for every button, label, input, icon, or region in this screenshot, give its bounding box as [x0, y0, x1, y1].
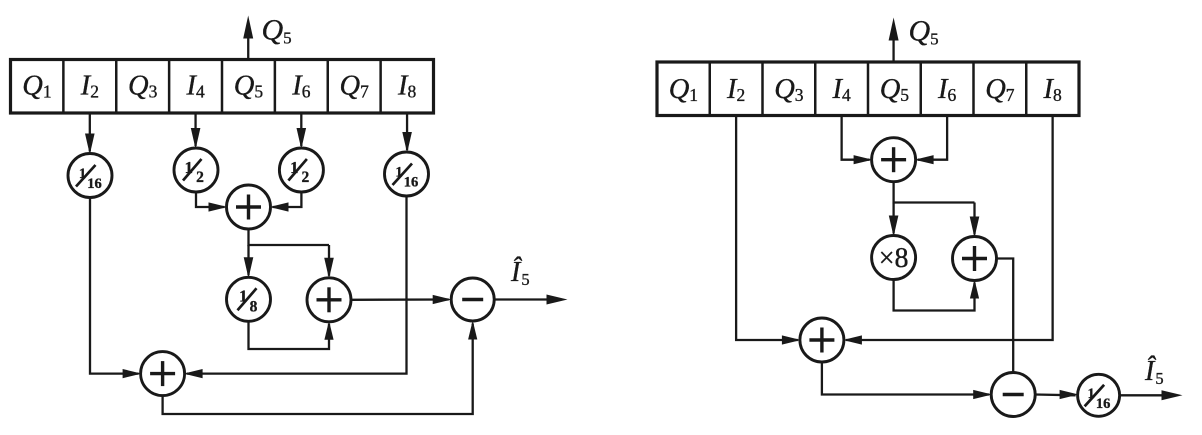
label I5-hat left [510, 257, 530, 289]
cell label Q3 left [128, 71, 158, 102]
wire I8 to gain 1/16 left diagram [402, 113, 412, 153]
wire I2 to adder B3 [736, 116, 801, 345]
subtractor left diagram [451, 278, 494, 321]
wire subtractor to gain 1/16 right [1035, 390, 1078, 399]
wire gain 1/2 (I6) to adder A1 [270, 192, 302, 212]
cell label I4 right [832, 74, 852, 105]
adder A3 bottom left diagram [141, 352, 185, 396]
branch arrow into adder B2 top [970, 203, 980, 238]
output arrow I5 right [1120, 390, 1183, 400]
gain 1/16 under I8 [385, 152, 429, 196]
gain 1/16 under I2 [68, 154, 112, 198]
subtractor right diagram [991, 373, 1035, 417]
adder A2 [307, 278, 351, 322]
branch arrow into gain 1/8 [244, 245, 254, 278]
cell label Q7 left [340, 71, 370, 102]
wire adder B3 to subtractor left [822, 362, 992, 399]
svg-text:16: 16 [1096, 396, 1111, 412]
wire gain 1/8 to adder A2 bottom [249, 321, 334, 349]
wire I6 to adder B1 [915, 116, 948, 165]
gain 1/2 under I6 [279, 148, 323, 192]
wire gain 1/16 (I8) to adder A3 [184, 196, 407, 378]
svg-text:16: 16 [87, 176, 102, 192]
wire adder A1 down with T split [249, 229, 330, 245]
wire adder B1 down with T split [894, 182, 975, 203]
svg-text:8: 8 [250, 298, 258, 315]
adder B2 [953, 237, 997, 281]
cell label Q1 left [22, 71, 51, 102]
register box left [11, 60, 434, 114]
wire gain 1/16 (I2) to adder A3 [90, 198, 142, 379]
cell label I2 left [80, 71, 99, 102]
label Q5 right [909, 15, 939, 49]
wire I2 to gain 1/16 left [85, 113, 95, 155]
wire gain 1/2 (I4) to adder A1 [196, 192, 228, 212]
branch arrow into gain x8 [889, 203, 899, 237]
svg-text:×8: ×8 [879, 243, 909, 274]
gain 1/16 output right [1078, 374, 1120, 416]
wire I6 to gain 1/2 [297, 113, 307, 149]
label I5-hat right [1144, 356, 1164, 388]
cell label I8 left [397, 71, 417, 102]
output arrow I5 left [494, 295, 567, 305]
gain 1/2 under I4 [174, 148, 218, 192]
gain x8 [872, 236, 916, 280]
wire I8 to adder B3 [843, 116, 1053, 345]
adder A1 left diagram [227, 185, 271, 229]
wire I4 to gain 1/2 [191, 113, 201, 149]
wire gain x8 to adder B2 bottom [894, 280, 980, 311]
wire adder A3 to subtractor bottom [163, 321, 478, 415]
wire I4 to adder B1 [842, 116, 873, 165]
cell label Q1 right [669, 74, 698, 105]
svg-text:16: 16 [404, 175, 419, 191]
cell label I6 right [937, 74, 957, 105]
label Q5 left [262, 14, 292, 48]
cell label I4 left [185, 71, 205, 102]
svg-text:2: 2 [302, 169, 310, 186]
svg-text:2: 2 [196, 169, 204, 186]
cell label Q5 right [880, 74, 910, 105]
adder B1 right diagram [872, 138, 916, 182]
cell label I6 left [291, 71, 311, 102]
register box right [657, 62, 1079, 116]
Q5 output arrow left [243, 16, 253, 60]
Q5 output arrow right [889, 18, 899, 63]
cell label I2 right [726, 74, 745, 105]
branch arrow into adder A2 top [324, 245, 334, 279]
cell label Q5 left [234, 71, 264, 102]
wire adder B2 to subtractor top [997, 259, 1014, 373]
gain 1/8 [227, 277, 271, 321]
cell label Q7 right [985, 74, 1015, 105]
adder B3 right diagram [800, 318, 844, 362]
wire adder A2 to subtractor [351, 295, 452, 304]
cell label I8 right [1043, 74, 1063, 105]
cell label Q3 right [774, 74, 804, 105]
